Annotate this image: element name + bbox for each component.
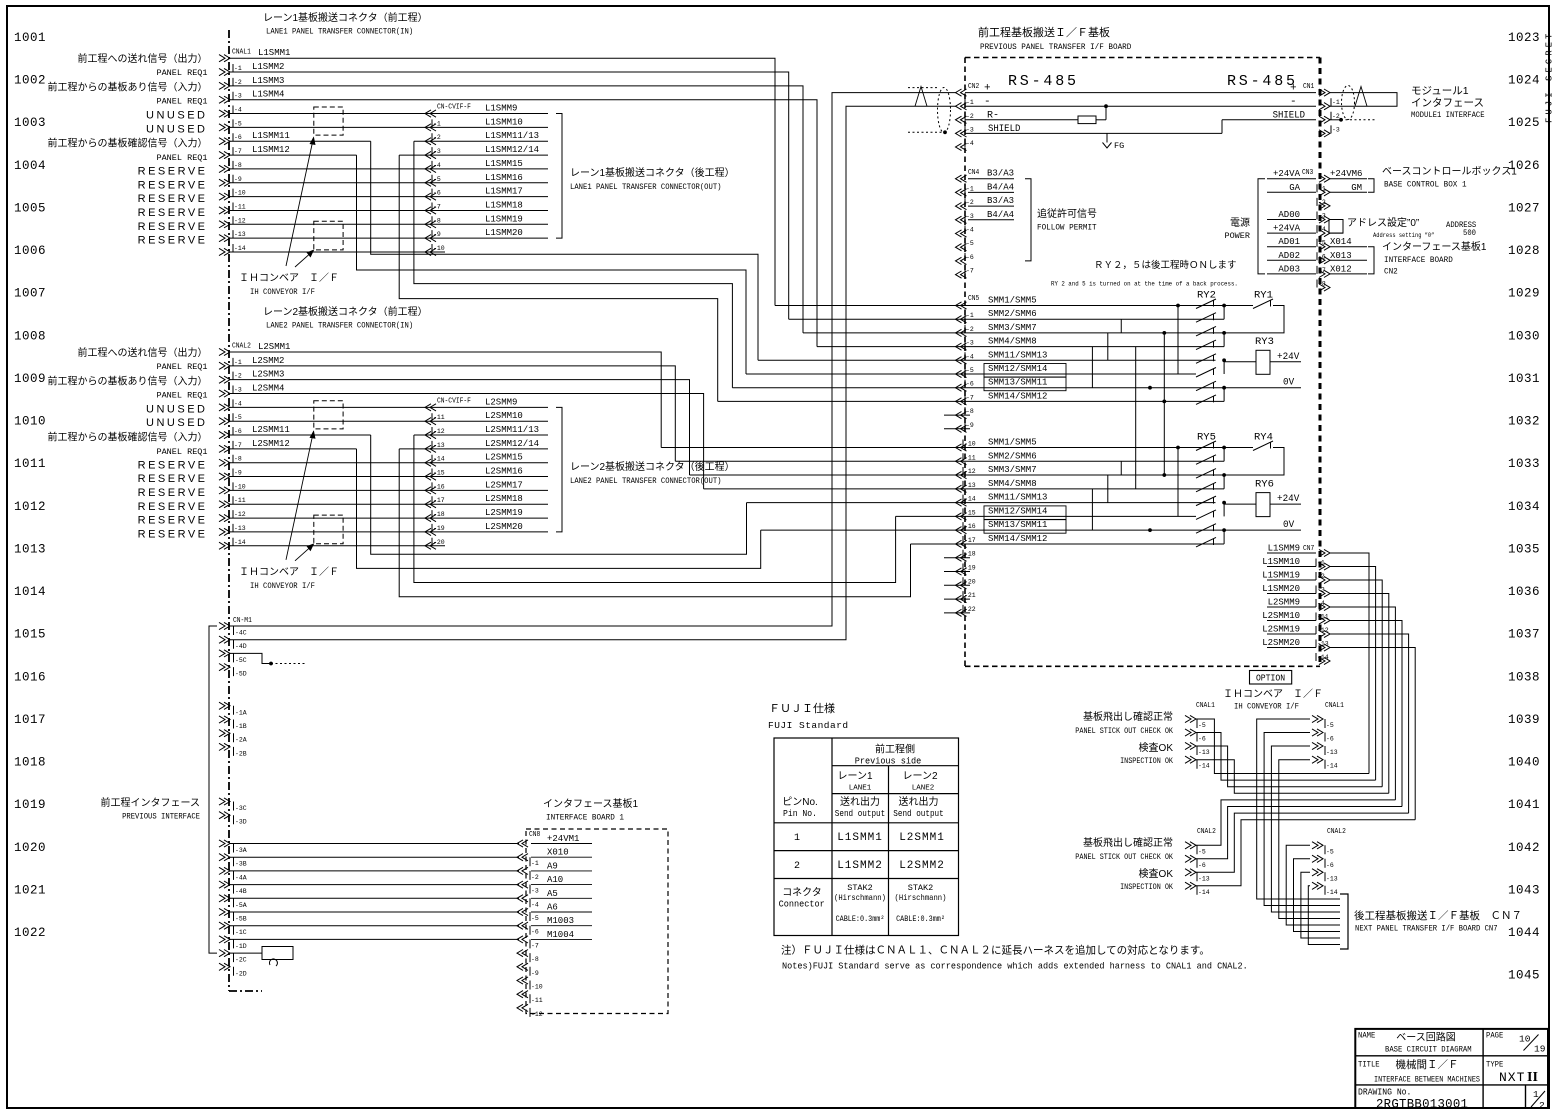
svg-text:-2: -2 bbox=[433, 134, 441, 141]
svg-text:RESERVE: RESERVE bbox=[138, 487, 208, 499]
svg-text:前工程側: 前工程側 bbox=[875, 743, 915, 756]
svg-text:INSPECTION OK: INSPECTION OK bbox=[1120, 884, 1173, 893]
svg-text:-4: -4 bbox=[966, 353, 974, 360]
svg-text:L1SMM16: L1SMM16 bbox=[485, 173, 523, 183]
svg-text:-6: -6 bbox=[433, 190, 441, 197]
svg-text:FUJI Standard: FUJI Standard bbox=[768, 720, 849, 731]
svg-text:-3D: -3D bbox=[235, 819, 247, 826]
svg-text:-2: -2 bbox=[966, 199, 974, 206]
lane1 OUT bracket bbox=[556, 114, 562, 239]
svg-text:ＦＵＪＩ仕様: ＦＵＪＩ仕様 bbox=[769, 701, 835, 715]
svg-text:L2SMM12/14: L2SMM12/14 bbox=[485, 439, 539, 449]
svg-text:1010: 1010 bbox=[14, 415, 46, 429]
svg-text:L2SMM1: L2SMM1 bbox=[258, 342, 290, 352]
svg-text:L1SMM4: L1SMM4 bbox=[252, 90, 284, 100]
svg-text:L1SMM1: L1SMM1 bbox=[837, 832, 883, 844]
svg-text:CN3: CN3 bbox=[1302, 168, 1313, 176]
svg-text:-5A: -5A bbox=[235, 902, 247, 909]
svg-text:-14: -14 bbox=[433, 456, 445, 463]
svg-text:SMM13/SMM11: SMM13/SMM11 bbox=[988, 378, 1047, 388]
svg-text:-4B: -4B bbox=[235, 888, 247, 895]
svg-text:L2SMM2: L2SMM2 bbox=[252, 356, 284, 366]
svg-text:+24VM1: +24VM1 bbox=[547, 834, 579, 844]
svg-text:1007: 1007 bbox=[14, 287, 46, 301]
svg-text:SMM1/SMM5: SMM1/SMM5 bbox=[988, 438, 1037, 448]
svg-text:2: 2 bbox=[794, 861, 800, 872]
svg-text:-12: -12 bbox=[964, 468, 976, 475]
terminating resistor on R- line bbox=[965, 119, 1078, 121]
svg-text:RS-485: RS-485 bbox=[1008, 73, 1079, 90]
svg-text:-5: -5 bbox=[1318, 240, 1326, 247]
svg-text:-2: -2 bbox=[1318, 199, 1326, 206]
svg-text:RESERVE: RESERVE bbox=[138, 235, 208, 247]
svg-text:RESERVE: RESERVE bbox=[138, 459, 208, 471]
svg-text:-3B: -3B bbox=[235, 861, 247, 868]
svg-text:基板飛出し確認正常: 基板飛出し確認正常 bbox=[1083, 836, 1173, 849]
svg-text:RS-485: RS-485 bbox=[1227, 73, 1298, 90]
svg-text:SMM1/SMM5: SMM1/SMM5 bbox=[988, 296, 1037, 306]
svg-text:X012: X012 bbox=[1330, 264, 1352, 274]
svg-text:CN-CVIF-F: CN-CVIF-F bbox=[437, 102, 471, 110]
svg-text:インタフェース: インタフェース bbox=[1411, 97, 1484, 109]
svg-text:-21: -21 bbox=[964, 592, 976, 599]
svg-text:ピンNo.: ピンNo. bbox=[782, 796, 818, 808]
svg-text:0V: 0V bbox=[1283, 519, 1294, 530]
svg-text:L2SMM16: L2SMM16 bbox=[485, 467, 523, 477]
svg-text:-3: -3 bbox=[234, 387, 242, 394]
CN-M1 left bracket bbox=[209, 626, 217, 953]
svg-text:1031: 1031 bbox=[1508, 372, 1540, 386]
svg-text:-13: -13 bbox=[964, 482, 976, 489]
svg-text:UNUSED: UNUSED bbox=[146, 123, 207, 135]
svg-text:1022: 1022 bbox=[14, 926, 46, 940]
svg-text:1033: 1033 bbox=[1508, 457, 1540, 471]
svg-text:インタフェース基板1: インタフェース基板1 bbox=[543, 797, 638, 810]
svg-text:AD03: AD03 bbox=[1278, 264, 1300, 274]
svg-text:-7: -7 bbox=[1318, 267, 1326, 274]
svg-text:1004: 1004 bbox=[14, 159, 46, 173]
inter-group verticals bbox=[1135, 347, 1137, 489]
svg-text:-5: -5 bbox=[1198, 722, 1206, 729]
svg-text:19: 19 bbox=[1534, 1044, 1546, 1055]
svg-text:-2D: -2D bbox=[235, 970, 247, 977]
svg-text:+24V: +24V bbox=[1277, 351, 1299, 362]
svg-text:-14: -14 bbox=[1198, 889, 1210, 896]
svg-text:-7: -7 bbox=[234, 442, 242, 449]
svg-text:-10: -10 bbox=[964, 441, 976, 448]
svg-text:CN2: CN2 bbox=[1384, 267, 1398, 276]
shield wire routing to CN1 -2 bbox=[965, 132, 1222, 134]
svg-text:1021: 1021 bbox=[14, 883, 46, 897]
svg-text:-2: -2 bbox=[1317, 573, 1325, 580]
svg-text:LANE2 PANEL TRANSFER CONNECTOR: LANE2 PANEL TRANSFER CONNECTOR(OUT) bbox=[570, 476, 721, 486]
FG ground symbol bbox=[1106, 133, 1108, 142]
swap highlight boxes CN5 -5/-6 bbox=[984, 364, 1066, 378]
svg-text:-7: -7 bbox=[531, 942, 539, 949]
svg-text:-4: -4 bbox=[966, 227, 974, 234]
svg-text:1039: 1039 bbox=[1508, 713, 1540, 727]
svg-text:RESERVE: RESERVE bbox=[138, 529, 208, 541]
svg-text:1043: 1043 bbox=[1508, 883, 1540, 897]
svg-text:1017: 1017 bbox=[14, 713, 46, 727]
svg-text:1015: 1015 bbox=[14, 628, 46, 642]
wire bundle lane2 SMM11-14 staircase to CN5 pins 14-17 bbox=[371, 435, 747, 554]
svg-text:-6: -6 bbox=[1318, 253, 1326, 260]
svg-text:-4: -4 bbox=[966, 140, 974, 147]
svg-text:LANE1 PANEL TRANSFER CONNECTOR: LANE1 PANEL TRANSFER CONNECTOR(IN) bbox=[266, 27, 413, 37]
svg-text:PREVIOUS PANEL TRANSFER I/F BO: PREVIOUS PANEL TRANSFER I/F BOARD bbox=[980, 43, 1131, 52]
svg-text:-7: -7 bbox=[433, 203, 441, 210]
svg-text:(Hirschmann): (Hirschmann) bbox=[834, 894, 886, 904]
svg-text:X014: X014 bbox=[1330, 237, 1352, 247]
interface board 1 dashed box bbox=[526, 829, 668, 1014]
follow permit bracket bbox=[1025, 179, 1031, 261]
svg-text:2RGTBB013001: 2RGTBB013001 bbox=[1376, 1096, 1468, 1111]
svg-text:SHIELD: SHIELD bbox=[1273, 109, 1306, 121]
svg-text:CN7: CN7 bbox=[1303, 544, 1314, 552]
svg-text:STAK2: STAK2 bbox=[908, 883, 934, 893]
lane1 horizontal wires CNAL1 to CN-CVIF-F bbox=[230, 113, 548, 115]
svg-text:-11: -11 bbox=[1317, 614, 1329, 621]
svg-text:-2B: -2B bbox=[235, 750, 247, 757]
svg-text:1008: 1008 bbox=[14, 329, 46, 343]
svg-text:-14: -14 bbox=[1326, 889, 1338, 896]
svg-text:SMM4/SMM8: SMM4/SMM8 bbox=[988, 337, 1037, 347]
svg-text:L1SMM2: L1SMM2 bbox=[252, 62, 284, 72]
svg-text:(Hirschmann): (Hirschmann) bbox=[895, 894, 947, 904]
svg-text:-14: -14 bbox=[1198, 763, 1210, 770]
svg-text:-1: -1 bbox=[1317, 560, 1325, 567]
svg-text:-13: -13 bbox=[1198, 749, 1210, 756]
svg-text:Previous side: Previous side bbox=[855, 755, 922, 767]
svg-text:L1SMM19: L1SMM19 bbox=[1262, 571, 1300, 581]
svg-text:-22: -22 bbox=[964, 606, 976, 613]
svg-text:電源: 電源 bbox=[1230, 216, 1250, 229]
svg-text:-10: -10 bbox=[433, 245, 445, 252]
svg-text:UNUSED: UNUSED bbox=[146, 110, 207, 122]
svg-text:前工程への送れ信号（出力）: 前工程への送れ信号（出力） bbox=[78, 346, 208, 359]
svg-text:-4A: -4A bbox=[235, 874, 247, 881]
svg-text:-8: -8 bbox=[234, 162, 242, 169]
svg-text:-2: -2 bbox=[531, 874, 539, 881]
svg-text:-15: -15 bbox=[964, 509, 976, 516]
svg-text:-4D: -4D bbox=[235, 643, 247, 650]
wire bundle lane1 SMM11-14 staircase to CN5 pins 4-7 bbox=[371, 141, 758, 360]
svg-text:-5: -5 bbox=[1326, 722, 1334, 729]
svg-text:PANEL REQ1: PANEL REQ1 bbox=[156, 97, 207, 107]
svg-text:L1SMM18: L1SMM18 bbox=[485, 200, 523, 210]
svg-text:RESERVE: RESERVE bbox=[138, 221, 208, 233]
svg-text:1018: 1018 bbox=[14, 756, 46, 770]
svg-text:L2SMM9: L2SMM9 bbox=[485, 397, 517, 407]
svg-text:-14: -14 bbox=[1326, 763, 1338, 770]
lane2 horizontal wires CNAL2 to CN-CVIF-F bbox=[230, 406, 548, 408]
svg-text:-13: -13 bbox=[234, 525, 246, 532]
svg-text:UNUSED: UNUSED bbox=[146, 417, 207, 429]
svg-text:-5B: -5B bbox=[235, 916, 247, 923]
svg-text:-17: -17 bbox=[433, 497, 445, 504]
svg-text:RESERVE: RESERVE bbox=[138, 515, 208, 527]
svg-text:RY2: RY2 bbox=[1197, 290, 1216, 302]
svg-text:B4/A4: B4/A4 bbox=[987, 210, 1014, 220]
svg-text:-10: -10 bbox=[234, 190, 246, 197]
svg-text:1042: 1042 bbox=[1508, 841, 1540, 855]
svg-text:-10: -10 bbox=[531, 984, 543, 991]
svg-text:L2SMM19: L2SMM19 bbox=[1262, 625, 1300, 635]
svg-text:-12: -12 bbox=[1317, 627, 1329, 634]
svg-text:-6: -6 bbox=[1198, 862, 1206, 869]
svg-text:1016: 1016 bbox=[14, 670, 46, 684]
svg-text:前工程インタフェース: 前工程インタフェース bbox=[101, 796, 201, 809]
svg-text:SMM11/SMM13: SMM11/SMM13 bbox=[988, 493, 1047, 503]
svg-text:SMM3/SMM7: SMM3/SMM7 bbox=[988, 465, 1037, 475]
svg-text:+24VA: +24VA bbox=[1273, 224, 1301, 234]
wire bundle L2SMM1-4 from CNAL2 to CN5 pins 10-13 bbox=[230, 352, 661, 448]
svg-text:ＩＨコンベア Ｉ／Ｆ: ＩＨコンベア Ｉ／Ｆ bbox=[239, 566, 339, 578]
CN5 stub pins -18..-22 bbox=[944, 557, 970, 559]
svg-text:-6: -6 bbox=[1198, 736, 1206, 743]
svg-text:L1SMM12/14: L1SMM12/14 bbox=[485, 145, 539, 155]
svg-text:-5: -5 bbox=[531, 915, 539, 922]
svg-text:L2SMM10: L2SMM10 bbox=[1262, 611, 1300, 621]
svg-text:Send output: Send output bbox=[835, 808, 885, 819]
svg-text:LANE2: LANE2 bbox=[912, 785, 935, 793]
FUJI standard table grid bbox=[774, 738, 959, 936]
svg-text:Pin No.: Pin No. bbox=[783, 809, 817, 820]
svg-text:-3: -3 bbox=[531, 888, 539, 895]
svg-text:Connector: Connector bbox=[779, 898, 825, 910]
svg-text:PANEL STICK OUT CHECK OK: PANEL STICK OUT CHECK OK bbox=[1075, 853, 1173, 862]
svg-text:RESERVE: RESERVE bbox=[138, 166, 208, 178]
svg-text:PANEL REQ1: PANEL REQ1 bbox=[156, 68, 207, 78]
svg-text:-2: -2 bbox=[234, 373, 242, 380]
svg-text:PANEL REQ1: PANEL REQ1 bbox=[156, 390, 207, 400]
svg-text:LANE1 PANEL TRANSFER CONNECTOR: LANE1 PANEL TRANSFER CONNECTOR(OUT) bbox=[570, 183, 721, 193]
svg-text:CABLE:0.3mm²: CABLE:0.3mm² bbox=[896, 915, 945, 925]
svg-text:-2: -2 bbox=[234, 79, 242, 86]
svg-text:レーン2基板搬送コネクタ（前工程）: レーン2基板搬送コネクタ（前工程） bbox=[263, 305, 428, 318]
svg-text:M1004: M1004 bbox=[547, 930, 574, 940]
svg-text:1001: 1001 bbox=[14, 31, 46, 45]
svg-text:L1SMM20: L1SMM20 bbox=[485, 228, 523, 238]
svg-text:+24VM6: +24VM6 bbox=[1330, 169, 1362, 179]
svg-text:1024: 1024 bbox=[1508, 74, 1540, 88]
svg-text:1028: 1028 bbox=[1508, 244, 1540, 258]
svg-text:-11: -11 bbox=[234, 203, 246, 210]
svg-text:1044: 1044 bbox=[1508, 926, 1540, 940]
svg-text:-1: -1 bbox=[966, 99, 974, 106]
RS-485 - wire CN2 to CN1 bbox=[965, 105, 1316, 107]
svg-text:-3: -3 bbox=[1332, 126, 1340, 133]
svg-text:-12: -12 bbox=[433, 428, 445, 435]
svg-text:-1: -1 bbox=[1332, 99, 1340, 106]
svg-text:L1SMM12: L1SMM12 bbox=[252, 145, 290, 155]
svg-text:MODULE1 INTERFACE: MODULE1 INTERFACE bbox=[1411, 111, 1485, 121]
svg-text:CN5: CN5 bbox=[968, 294, 979, 302]
svg-text:CN-CVIF-F: CN-CVIF-F bbox=[437, 396, 471, 404]
svg-text:1038: 1038 bbox=[1508, 670, 1540, 684]
svg-text:L1SMM2: L1SMM2 bbox=[837, 860, 883, 872]
svg-text:FG: FG bbox=[1114, 141, 1124, 151]
svg-text:L2SMM19: L2SMM19 bbox=[485, 508, 523, 518]
svg-text:1020: 1020 bbox=[14, 841, 46, 855]
svg-text:AD02: AD02 bbox=[1278, 251, 1300, 261]
option CNAL2 left column wiring bbox=[1196, 800, 1395, 845]
svg-text:1023: 1023 bbox=[1508, 31, 1540, 45]
svg-text:ＲＹ２，５は後工程時ＯＮします: ＲＹ２，５は後工程時ＯＮします bbox=[1094, 259, 1237, 271]
svg-text:-13: -13 bbox=[1326, 875, 1338, 882]
svg-text:0V: 0V bbox=[1283, 376, 1294, 387]
svg-text:CN-M1: CN-M1 bbox=[233, 616, 252, 624]
svg-text:ベースコントロールボックス1: ベースコントロールボックス1 bbox=[1382, 166, 1517, 178]
svg-text:ベース回路図: ベース回路図 bbox=[1396, 1031, 1456, 1044]
svg-text:前工程への送れ信号（出力）: 前工程への送れ信号（出力） bbox=[78, 52, 208, 65]
svg-text:-11: -11 bbox=[531, 997, 543, 1004]
lane2 IH conveyor option dashed boxes bbox=[314, 401, 343, 429]
svg-text:-3C: -3C bbox=[235, 805, 247, 812]
cable shield symbol right of CN1 bbox=[1342, 86, 1355, 120]
svg-text:-4: -4 bbox=[234, 107, 242, 114]
svg-text:SHIELD: SHIELD bbox=[988, 123, 1021, 135]
svg-text:FOLLOW PERMIT: FOLLOW PERMIT bbox=[1037, 223, 1097, 232]
address jumper box CN3 pins 3-4 bbox=[1330, 219, 1343, 221]
svg-text:-13: -13 bbox=[1317, 641, 1329, 648]
svg-text:-1C: -1C bbox=[235, 929, 247, 936]
svg-text:CNAL2: CNAL2 bbox=[232, 341, 251, 349]
svg-text:アドレス設定”0”: アドレス設定”0” bbox=[1347, 216, 1419, 229]
svg-text:CN8: CN8 bbox=[529, 830, 540, 838]
cable shield symbol left of CN2 bbox=[908, 87, 938, 89]
svg-text:L2SMM1: L2SMM1 bbox=[899, 832, 945, 844]
svg-text:-7: -7 bbox=[966, 394, 974, 401]
svg-text:TITLE: TITLE bbox=[1358, 1061, 1380, 1069]
svg-text:-3: -3 bbox=[966, 213, 974, 220]
svg-text:-2: -2 bbox=[966, 113, 974, 120]
svg-text:L2SMM4: L2SMM4 bbox=[252, 384, 284, 394]
svg-text:-8: -8 bbox=[966, 408, 974, 415]
CN7 staircase wires to option connectors bbox=[1330, 553, 1369, 774]
svg-text:GM: GM bbox=[1351, 183, 1362, 193]
svg-text:L2SMM3: L2SMM3 bbox=[252, 370, 284, 380]
svg-text:PANEL STICK OUT CHECK OK: PANEL STICK OUT CHECK OK bbox=[1075, 727, 1173, 736]
svg-text:PANEL REQ1: PANEL REQ1 bbox=[156, 153, 207, 163]
svg-text:-7: -7 bbox=[966, 268, 974, 275]
svg-text:L1SMM20: L1SMM20 bbox=[1262, 584, 1300, 594]
svg-text:CN1: CN1 bbox=[1303, 82, 1314, 90]
svg-text:IH CONVEYOR I/F: IH CONVEYOR I/F bbox=[250, 581, 315, 591]
svg-text:-9: -9 bbox=[234, 176, 242, 183]
svg-text:NAME: NAME bbox=[1358, 1032, 1376, 1040]
interface board 1 CN2 labels bbox=[1368, 247, 1374, 274]
svg-text:-11: -11 bbox=[964, 454, 976, 461]
svg-text:前工程からの基板あり信号（入力）: 前工程からの基板あり信号（入力） bbox=[48, 374, 208, 387]
svg-text:-1: -1 bbox=[433, 120, 441, 127]
svg-text:-12: -12 bbox=[234, 217, 246, 224]
svg-text:-1: -1 bbox=[531, 860, 539, 867]
svg-text:L2SMM18: L2SMM18 bbox=[485, 494, 523, 504]
svg-text:1014: 1014 bbox=[14, 585, 46, 599]
svg-text:SMM14/SMM12: SMM14/SMM12 bbox=[988, 534, 1047, 544]
svg-text:L2SMM15: L2SMM15 bbox=[485, 453, 523, 463]
svg-text:-8: -8 bbox=[1318, 281, 1326, 288]
lane1 IH conveyor option dashed boxes bbox=[314, 107, 343, 135]
svg-text:A5: A5 bbox=[547, 889, 558, 899]
svg-text:検査OK: 検査OK bbox=[1139, 867, 1174, 880]
svg-text:1030: 1030 bbox=[1508, 329, 1540, 343]
svg-text:-2C: -2C bbox=[235, 957, 247, 964]
svg-text:前工程からの基板あり信号（入力）: 前工程からの基板あり信号（入力） bbox=[48, 81, 208, 94]
svg-text:-5: -5 bbox=[966, 240, 974, 247]
svg-text:1002: 1002 bbox=[14, 74, 46, 88]
svg-text:-6: -6 bbox=[234, 134, 242, 141]
svg-text:1019: 1019 bbox=[14, 798, 46, 812]
svg-text:レーン1基板搬送コネクタ（前工程）: レーン1基板搬送コネクタ（前工程） bbox=[263, 11, 428, 24]
svg-text:-20: -20 bbox=[964, 578, 976, 585]
svg-text:CN2: CN2 bbox=[968, 82, 979, 90]
svg-text:A9: A9 bbox=[547, 861, 558, 871]
svg-text:IH CONVEYOR I/F: IH CONVEYOR I/F bbox=[1234, 702, 1299, 712]
svg-text:-12: -12 bbox=[531, 1011, 543, 1018]
svg-text:SMM11/SMM13: SMM11/SMM13 bbox=[988, 350, 1047, 360]
svg-text:AD01: AD01 bbox=[1278, 237, 1300, 247]
svg-text:前工程からの基板確認信号（入力）: 前工程からの基板確認信号（入力） bbox=[48, 137, 208, 150]
svg-text:-19: -19 bbox=[964, 565, 976, 572]
svg-text:RY4: RY4 bbox=[1254, 432, 1273, 444]
svg-text:+24VA: +24VA bbox=[1273, 169, 1301, 179]
svg-text:-20: -20 bbox=[433, 539, 445, 546]
svg-text:-4: -4 bbox=[1317, 600, 1325, 607]
svg-text:GA: GA bbox=[1289, 183, 1300, 193]
svg-text:L2SMM11/13: L2SMM11/13 bbox=[485, 425, 539, 435]
svg-text:レーン1: レーン1 bbox=[837, 771, 872, 782]
svg-text:-5: -5 bbox=[1198, 848, 1206, 855]
option CNAL1 left column wiring bbox=[1196, 719, 1369, 774]
svg-text:BASE CONTROL BOX 1: BASE CONTROL BOX 1 bbox=[1384, 180, 1467, 189]
svg-text:Address setting ”0”: Address setting ”0” bbox=[1373, 232, 1434, 239]
machine boundary dash-dot line bbox=[228, 30, 230, 991]
svg-text:-1: -1 bbox=[234, 65, 242, 72]
svg-text:1: 1 bbox=[794, 833, 800, 844]
svg-text:-4C: -4C bbox=[235, 630, 247, 637]
svg-text:1003: 1003 bbox=[14, 116, 46, 130]
module1 interface bracket bbox=[1390, 93, 1397, 107]
svg-text:-1D: -1D bbox=[235, 943, 247, 950]
RS-485 + wire CN2 to CN1 bbox=[965, 92, 1316, 94]
svg-text:-9: -9 bbox=[234, 470, 242, 477]
svg-text:NXT: NXT bbox=[1499, 1070, 1525, 1085]
svg-text:1011: 1011 bbox=[14, 457, 46, 471]
svg-text:-17: -17 bbox=[964, 537, 976, 544]
svg-text:A10: A10 bbox=[547, 875, 563, 885]
svg-text:-8: -8 bbox=[234, 456, 242, 463]
svg-text:1035: 1035 bbox=[1508, 542, 1540, 556]
svg-text:SMM2/SMM6: SMM2/SMM6 bbox=[988, 309, 1037, 319]
svg-text:-9: -9 bbox=[433, 231, 441, 238]
svg-text:検査OK: 検査OK bbox=[1139, 741, 1174, 754]
svg-text:-5: -5 bbox=[966, 367, 974, 374]
svg-text:-9: -9 bbox=[966, 422, 974, 429]
svg-text:B3/A3: B3/A3 bbox=[987, 196, 1014, 206]
svg-text:RY 2 and 5 is turned on at the: RY 2 and 5 is turned on at the time of a… bbox=[1051, 280, 1238, 288]
svg-text:PREVIOUS INTERFACE: PREVIOUS INTERFACE bbox=[122, 812, 200, 822]
svg-text:-16: -16 bbox=[964, 523, 976, 530]
svg-text:-5: -5 bbox=[433, 176, 441, 183]
svg-text:POWER: POWER bbox=[1224, 231, 1250, 241]
svg-text:STAK2: STAK2 bbox=[847, 883, 873, 893]
lane2 OUT bracket bbox=[556, 407, 562, 532]
svg-text:L2SMM9: L2SMM9 bbox=[1268, 598, 1300, 608]
svg-text:RESERVE: RESERVE bbox=[138, 207, 208, 219]
